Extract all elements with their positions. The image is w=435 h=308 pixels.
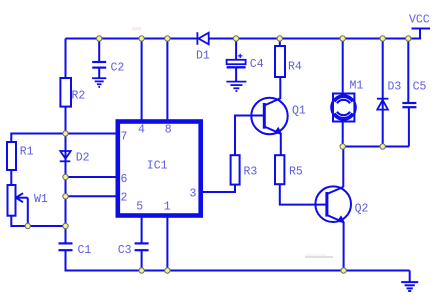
node left bottom (63, 223, 68, 228)
svg-text:C4: C4 (250, 58, 264, 71)
svg-text:5: 5 (136, 200, 143, 213)
svg-text:1: 1 (164, 200, 171, 213)
node left pin2 (63, 194, 68, 199)
ground under C2 (92, 78, 106, 87)
wire W1 bottom row (11, 216, 65, 226)
svg-text:R1: R1 (20, 145, 34, 158)
node wiper (25, 223, 30, 228)
node rail-pin4 (139, 36, 144, 41)
wire Q1 emitter to R5 (280, 134, 282, 155)
svg-text:M1: M1 (350, 80, 364, 93)
wire Q2 emitter down (343, 222, 345, 270)
wire C1 bottom + bottom rail (66, 251, 410, 270)
svg-text:D1: D1 (196, 50, 210, 63)
svg-text:R2: R2 (72, 90, 86, 103)
svg-text:4: 4 (138, 123, 145, 136)
wire top rail left segment (66, 38, 197, 40)
wire C3 to bottom rail (141, 251, 143, 270)
node rail-C4 (233, 36, 238, 41)
wire C1 top (65, 226, 67, 243)
svg-text:W1: W1 (34, 193, 48, 206)
svg-text:VCC: VCC (409, 14, 430, 27)
IC IC1 box (118, 122, 201, 216)
wire R1-W1 link (10, 170, 12, 185)
svg-text:C3: C3 (118, 244, 132, 257)
artifact pink smudge (132, 27, 141, 31)
node pin1 rail (165, 268, 170, 273)
wire R4 to Q1 collector (279, 77, 281, 99)
svg-text:8: 8 (165, 123, 172, 136)
capacitor C2 (92, 62, 106, 68)
node left pin6 (63, 174, 68, 179)
svg-text:3: 3 (190, 187, 197, 200)
wire R4 top (279, 39, 281, 47)
capacitor C5 (402, 103, 416, 107)
wire pin7 row (11, 134, 115, 143)
node rail-R4 (277, 36, 282, 41)
wire C5 stub (407, 39, 409, 103)
pin numbers (121, 123, 197, 213)
wire IC pin5 to C3 (141, 218, 143, 243)
diode D3 (377, 99, 389, 110)
svg-text:C5: C5 (413, 81, 427, 94)
wire M1 top (342, 39, 344, 94)
node rail-M1 (340, 36, 345, 41)
wire C4 to ground (235, 68, 237, 81)
node rail-C5 (406, 36, 411, 41)
wire W1 wiper down (27, 198, 29, 226)
resistor R2 (60, 78, 71, 107)
wire IC pin8 to rail (166, 39, 168, 120)
wire Q2 collector (342, 147, 344, 188)
wire D3 branch (382, 39, 384, 147)
diode D2 (60, 151, 71, 161)
svg-text:R4: R4 (288, 61, 302, 74)
wire top rail right segment (209, 38, 421, 40)
transistor Q1 (251, 98, 287, 135)
wire pin3 to R3 (203, 185, 235, 192)
svg-text:R3: R3 (244, 166, 258, 179)
svg-text:Q1: Q1 (292, 105, 306, 118)
transistor Q2 (315, 186, 351, 223)
svg-text:D3: D3 (388, 81, 402, 94)
wire pin6 row (66, 176, 116, 178)
capacitor C1 (59, 243, 73, 250)
wire R3 top to Q1 base (235, 116, 263, 156)
node rail-D3 (380, 36, 385, 41)
svg-text:6: 6 (121, 173, 128, 186)
wire IC pin4 to rail (141, 39, 143, 120)
node left pin7 (63, 131, 68, 136)
wire R5 to Q2 base (280, 184, 326, 204)
node Q2 emitter rail (341, 268, 346, 273)
wire C2 stub (98, 39, 100, 62)
capacitor C3 (135, 243, 149, 250)
wire C5 bottom (408, 108, 410, 147)
svg-text:R5: R5 (289, 166, 303, 179)
resistor R1 (7, 142, 16, 170)
ground under C4 (226, 82, 246, 91)
svg-text:2: 2 (121, 191, 128, 204)
wire IC pin1 to bottom rail (166, 218, 168, 271)
node VCC terminal (412, 29, 431, 39)
wire ground stub bottom right (409, 271, 411, 282)
svg-text:IC1: IC1 (147, 160, 168, 173)
wire C2 to ground (98, 69, 100, 78)
potentiometer W1 (8, 185, 28, 216)
node C3 rail (139, 268, 144, 273)
svg-text:7: 7 (121, 131, 128, 144)
svg-text:C1: C1 (78, 244, 92, 257)
node M1 bottom (340, 144, 345, 149)
wire branch row (343, 146, 409, 148)
node rail-C2 (97, 36, 102, 41)
capacitor C4 (electrolytic) (227, 54, 246, 68)
wire R2 bottom through D2 to bottom-left (65, 107, 67, 226)
svg-text:Q2: Q2 (355, 202, 369, 215)
ground bottom right (401, 282, 418, 291)
svg-text:C2: C2 (111, 62, 125, 75)
node D3 bottom (380, 144, 385, 149)
diode D1 (197, 32, 208, 45)
wire M1 bottom (342, 122, 344, 147)
wire pin2 row (66, 195, 116, 197)
artifact gray streak (305, 256, 333, 258)
motor M1 (331, 94, 356, 122)
resistor R4 (275, 46, 285, 77)
resistor R3 (231, 155, 240, 184)
node rail-pin8 (165, 36, 170, 41)
wire left column vertical (65, 39, 67, 79)
svg-text:D2: D2 (76, 151, 90, 164)
wire C4 stub (235, 39, 237, 60)
resistor R5 (275, 155, 284, 184)
